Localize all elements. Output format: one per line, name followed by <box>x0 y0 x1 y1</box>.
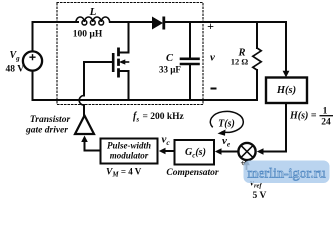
svg-text:C: C <box>166 53 174 64</box>
svg-text:Compensator: Compensator <box>166 168 219 178</box>
svg-text:1: 1 <box>323 107 328 117</box>
svg-text:H(s) =: H(s) = <box>289 111 317 122</box>
svg-text:Gc(s): Gc(s) <box>185 147 206 160</box>
svg-text:33 µF: 33 µF <box>159 65 181 75</box>
svg-text:12 Ω: 12 Ω <box>231 57 249 67</box>
svg-text:L: L <box>89 6 97 18</box>
svg-text:Transistor: Transistor <box>30 115 71 125</box>
svg-text:gate driver: gate driver <box>25 126 68 136</box>
svg-text:+: + <box>207 19 214 33</box>
svg-text:48 V: 48 V <box>6 64 25 74</box>
svg-text:fs = 200 kHz: fs = 200 kHz <box>133 111 185 124</box>
svg-text:5 V: 5 V <box>253 191 267 201</box>
svg-text:merlin-igor.ru: merlin-igor.ru <box>247 167 325 182</box>
svg-text:v: v <box>210 52 215 64</box>
svg-text:24: 24 <box>321 118 331 128</box>
svg-text:T(s): T(s) <box>218 119 235 130</box>
svg-text:Pulse-width: Pulse-width <box>107 141 151 151</box>
svg-text:modulator: modulator <box>110 151 149 161</box>
svg-text:H(s): H(s) <box>276 85 296 96</box>
svg-text:100 µH: 100 µH <box>73 30 103 40</box>
